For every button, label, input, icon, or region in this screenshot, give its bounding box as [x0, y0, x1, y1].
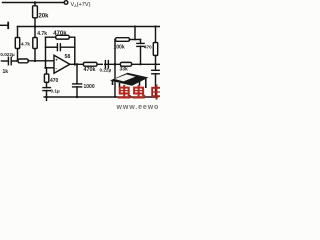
wire second rail [18, 26, 161, 28]
resistor 470 gain [46, 68, 48, 74]
wire ground rail [44, 96, 157, 98]
resistor 4.7k left [17, 27, 19, 61]
svg-text:470k: 470k [84, 67, 96, 73]
svg-text:33k: 33k [120, 66, 129, 72]
svg-text:58: 58 [65, 54, 71, 60]
wire 100k to rail [134, 27, 136, 40]
node supply junction [34, 1, 37, 4]
svg-text:470k: 470k [53, 31, 67, 37]
svg-text:470: 470 [144, 44, 152, 49]
svg-text:20k: 20k [39, 14, 50, 20]
svg-text:+: + [55, 58, 58, 63]
svg-text:1000: 1000 [84, 84, 95, 90]
svg-text:470: 470 [50, 78, 59, 84]
resistor 33k [120, 62, 131, 66]
capacitor 470p [140, 40, 142, 44]
op-amp U1 [54, 55, 70, 73]
svg-text:0.1μ: 0.1μ [51, 88, 60, 93]
resistor 470k feedback [46, 36, 75, 38]
svg-text:100k: 100k [114, 45, 125, 51]
watermark logo board [110, 73, 149, 88]
op-amp output wire [70, 63, 160, 65]
resistor 470k output [83, 62, 97, 66]
wire op-amp inverting stub [46, 67, 55, 69]
watermark char worm 2 [132, 85, 145, 98]
svg-text:www.eewo: www.eewo [116, 104, 160, 110]
terminal V+ supply [64, 1, 68, 5]
node input bias A [16, 60, 18, 62]
node output junction [74, 63, 77, 66]
input terminal mark [0, 24, 8, 26]
svg-text:VA(+7V): VA(+7V) [71, 2, 91, 8]
resistor right edge [155, 27, 157, 43]
node input bias B [34, 60, 37, 63]
capacitor 0.22u [104, 61, 106, 68]
wire top supply rail [3, 2, 64, 4]
wire feedback vertical right [74, 37, 76, 64]
capacitor right edge [152, 69, 159, 71]
svg-text:4.7k: 4.7k [37, 31, 47, 37]
watermark char worm 1 [118, 85, 131, 98]
node 33k junction [114, 63, 117, 66]
node rail junction [34, 25, 37, 28]
resistor input series [18, 59, 28, 63]
resistor 4.7k right [34, 27, 36, 61]
resistor 20k [34, 3, 36, 27]
capacitor feedback [46, 46, 58, 48]
svg-text:0.022μ: 0.022μ [0, 52, 14, 57]
wire 100k branch vertical [114, 40, 116, 98]
resistor 100k [114, 39, 117, 41]
capacitor 0.1u [43, 87, 50, 89]
svg-text:1k: 1k [3, 69, 9, 75]
wire feedback vertical left [45, 37, 47, 68]
capacitor 1000p [76, 64, 78, 84]
svg-text:4.7k: 4.7k [21, 42, 30, 47]
capacitor 0.022u input [2, 60, 9, 62]
watermark char dian partial [152, 84, 161, 99]
svg-text:0.22μ: 0.22μ [100, 67, 112, 72]
